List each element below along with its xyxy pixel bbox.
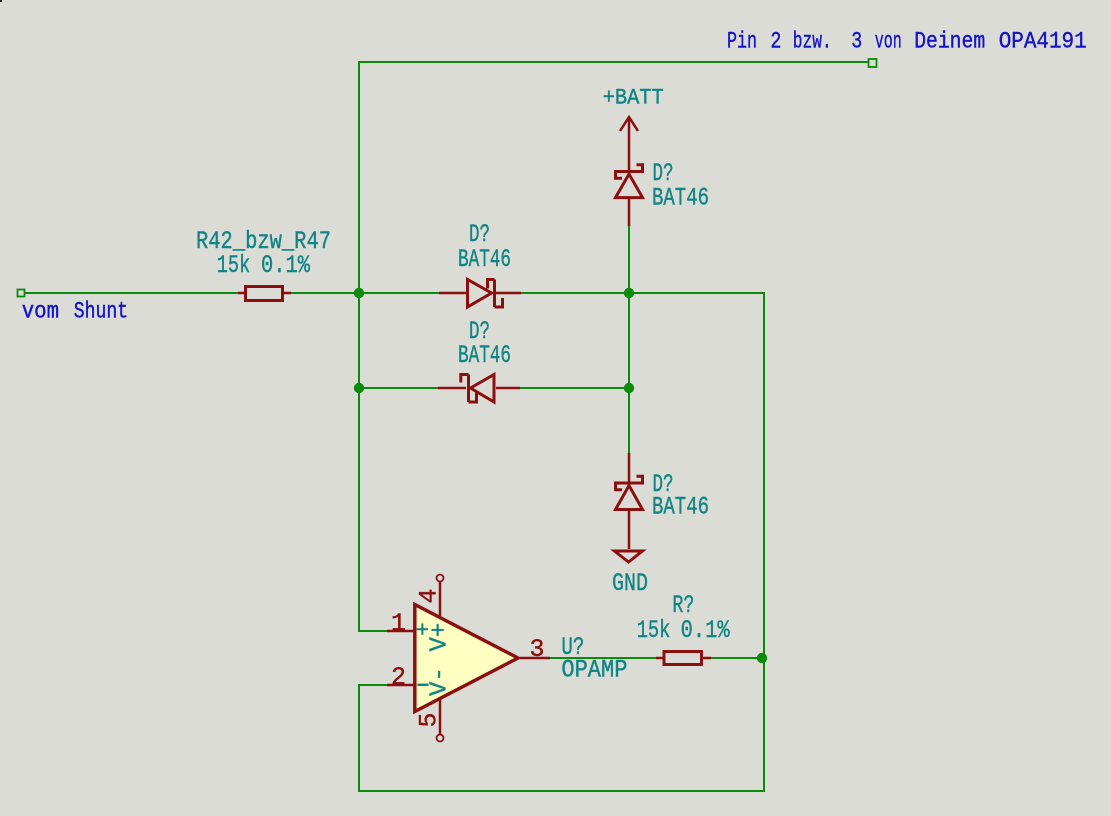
svg-text:V-: V- [427, 667, 454, 696]
svg-text:OPA4191: OPA4191 [999, 28, 1087, 55]
svg-text:0.1%: 0.1% [261, 251, 311, 280]
svg-text:vom: vom [22, 299, 59, 326]
svg-text:4: 4 [415, 588, 444, 603]
svg-text:V+: V+ [427, 623, 454, 652]
svg-text:1: 1 [391, 609, 406, 638]
svg-text:5: 5 [415, 712, 444, 727]
svg-text:3: 3 [851, 28, 862, 55]
svg-text:Deinem: Deinem [914, 28, 985, 55]
svg-text:Shunt: Shunt [74, 299, 128, 326]
svg-text:2: 2 [770, 28, 781, 55]
svg-text:2: 2 [391, 663, 406, 692]
svg-text:GND: GND [612, 569, 648, 598]
svg-text:BAT46: BAT46 [458, 341, 511, 370]
svg-text:BAT46: BAT46 [652, 184, 709, 213]
svg-text:BAT46: BAT46 [458, 245, 511, 274]
svg-text:OPAMP: OPAMP [561, 655, 627, 684]
svg-text:0.1%: 0.1% [681, 616, 731, 645]
svg-text:+BATT: +BATT [603, 86, 664, 111]
svg-text:15k: 15k [217, 251, 251, 280]
svg-text:Pin: Pin [727, 28, 757, 55]
svg-text:3: 3 [530, 635, 545, 664]
svg-text:15k: 15k [637, 616, 671, 645]
svg-text:bzw.: bzw. [793, 28, 832, 55]
svg-text:von: von [875, 28, 902, 55]
svg-text:BAT46: BAT46 [652, 493, 709, 522]
